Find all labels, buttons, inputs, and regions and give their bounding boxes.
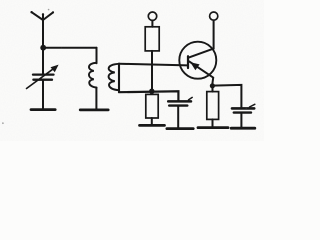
ground (under R3)	[198, 126, 228, 129]
ground (under L1)	[80, 109, 108, 112]
inductor L2	[109, 64, 119, 92]
wire L1 bottom lead	[95, 88, 97, 109]
wire collector rail	[213, 20, 215, 48]
variable capacitor C1	[27, 48, 59, 109]
terminal (left)	[148, 12, 156, 20]
ground (under C2)	[167, 127, 193, 130]
wire R1 bottom lead down to node	[151, 51, 153, 91]
resistor R3	[207, 86, 219, 127]
inductor L1	[89, 63, 97, 88]
ground (under R2)	[140, 124, 165, 127]
capacitor C3	[232, 104, 255, 127]
wire antenna horizontal	[43, 47, 96, 49]
ground (under C3)	[231, 127, 255, 130]
transistor Q1	[179, 42, 216, 84]
node antenna junction	[40, 45, 46, 51]
node base-divider junction	[149, 89, 154, 94]
node emitter junction	[210, 83, 215, 88]
resistor R1	[145, 27, 159, 51]
capacitor C2	[168, 97, 192, 127]
wire L2 bottom to divider node to C2 corner	[119, 91, 178, 101]
ground (under C1)	[31, 108, 55, 111]
wire emitter to C3	[212, 85, 241, 108]
antenna ANT	[30, 11, 54, 48]
terminal (right)	[210, 12, 218, 20]
wire terminal to R1	[151, 21, 153, 27]
resistor R2	[146, 94, 158, 124]
wire down to L1	[96, 48, 98, 64]
wire base wire from L2 top to transistor base	[119, 64, 188, 66]
